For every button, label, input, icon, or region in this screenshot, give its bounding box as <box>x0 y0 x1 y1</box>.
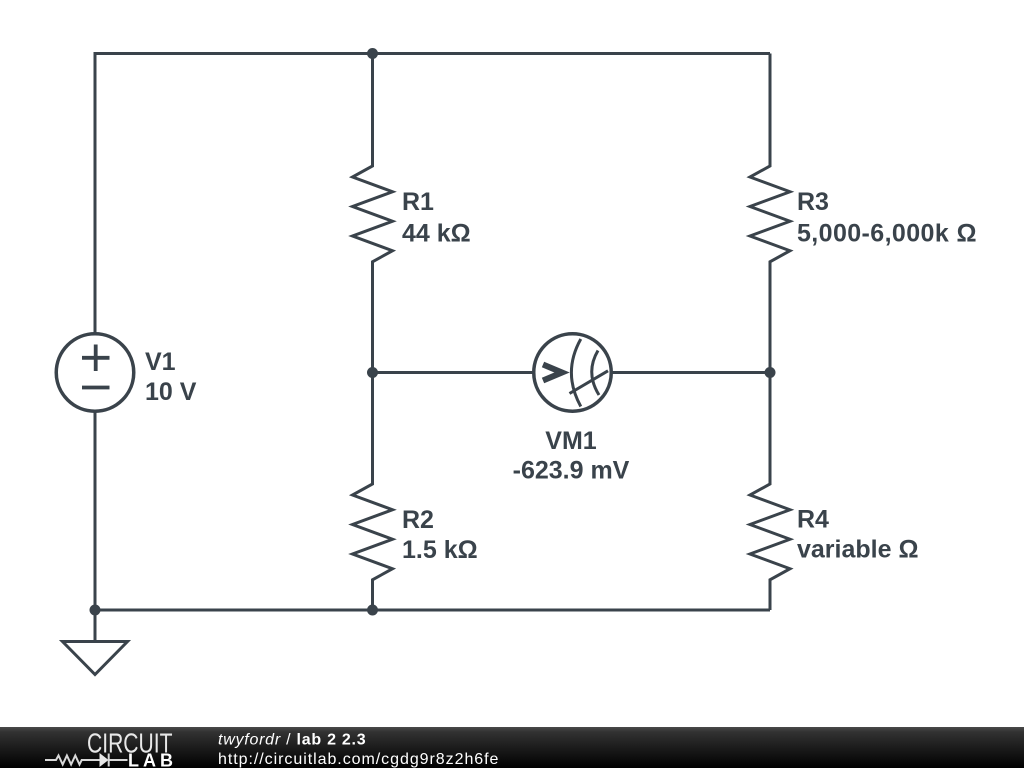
svg-text:variable Ω: variable Ω <box>797 536 919 564</box>
voltage source V1 <box>56 334 134 412</box>
node bottom-middle junction <box>367 605 378 616</box>
footer title text <box>218 731 366 748</box>
svg-text:V1: V1 <box>145 348 176 376</box>
svg-text:twyfordr / lab 2 2.3: twyfordr / lab 2 2.3 <box>218 731 366 748</box>
wire left vertical upper (V1 top lead) <box>94 52 97 333</box>
svg-text:44 kΩ: 44 kΩ <box>402 220 471 248</box>
label VM1 value <box>513 427 630 485</box>
wire middle right (VM1 to node B) <box>611 371 770 374</box>
svg-text:5,000-6,000k Ω: 5,000-6,000k Ω <box>797 220 977 248</box>
svg-text:R3: R3 <box>797 188 829 216</box>
label R1 value <box>402 188 471 248</box>
svg-text:R4: R4 <box>797 506 829 534</box>
svg-text:VM1: VM1 <box>545 427 597 455</box>
svg-text:-623.9 mV: -623.9 mV <box>513 457 630 485</box>
svg-text:LAB: LAB <box>128 751 177 768</box>
CircuitLab logo diode triangle <box>100 753 109 767</box>
node top junction <box>367 48 378 59</box>
svg-text:R2: R2 <box>402 506 434 534</box>
node A junction (left middle) <box>367 367 378 378</box>
voltmeter VM1 <box>534 334 612 412</box>
CircuitLab logo wordmark CIRCUIT <box>87 728 173 759</box>
wire bottom horizontal <box>95 609 770 612</box>
label V1 value <box>145 348 197 406</box>
node B junction (right middle) <box>765 367 776 378</box>
CircuitLab logo resistor-diode squiggle <box>45 754 128 767</box>
resistor R1 <box>353 54 393 373</box>
resistor R2 <box>353 373 393 611</box>
label R4 value <box>797 506 919 564</box>
CircuitLab logo wordmark LAB <box>128 751 177 768</box>
wire middle left (node A to VM1) <box>373 371 535 374</box>
svg-text:1.5 kΩ: 1.5 kΩ <box>402 536 478 564</box>
svg-text:http://circuitlab.com/cgdg9r8z: http://circuitlab.com/cgdg9r8z2h6fe <box>218 751 499 768</box>
node bottom-left junction <box>90 605 101 616</box>
label R3 value <box>797 188 977 248</box>
wire top horizontal <box>95 52 770 55</box>
svg-text:R1: R1 <box>402 188 434 216</box>
label R2 value <box>402 506 478 564</box>
ground <box>63 610 128 675</box>
resistor R4 <box>750 373 790 611</box>
footer url text <box>218 751 499 768</box>
resistor R3 <box>750 54 790 373</box>
footer bar <box>0 727 1024 768</box>
svg-text:10 V: 10 V <box>145 378 197 406</box>
wire left vertical lower (V1 bottom lead) <box>94 412 97 610</box>
